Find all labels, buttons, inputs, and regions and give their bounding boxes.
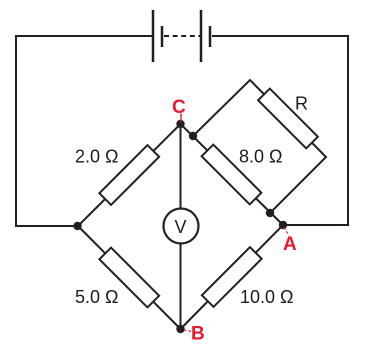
- battery cell 2 long plate: [200, 10, 203, 62]
- wire top-right rail: [212, 35, 348, 37]
- wire voltmeter vertical: [180, 124, 182, 329]
- resistor 10.0 ohm body: [202, 247, 262, 307]
- wire C to left node (2.0 ohm branch): [78, 124, 181, 226]
- wire left rail: [16, 35, 78, 226]
- node B leader line: [184, 330, 192, 332]
- battery cell 1 long plate: [152, 10, 155, 62]
- resistor R body: [258, 89, 318, 149]
- node A leader line: [284, 228, 289, 236]
- wire dashed (more cells): [164, 35, 200, 37]
- svg-text:A: A: [283, 234, 297, 255]
- svg-text:8.0 Ω: 8.0 Ω: [239, 147, 282, 167]
- wire C to A (8.0 ohm branch): [181, 124, 284, 225]
- wire R branch (parallel loop): [193, 80, 326, 213]
- node left junction dot: [73, 222, 81, 230]
- svg-text:V: V: [174, 217, 186, 237]
- resistor 8.0 ohm body: [202, 145, 262, 205]
- wire B to A (10.0 ohm branch): [181, 225, 284, 329]
- svg-text:5.0 Ω: 5.0 Ω: [75, 287, 118, 307]
- resistor 5.0 ohm body: [99, 248, 159, 308]
- resistor 2.0 ohm body: [99, 145, 159, 205]
- junction dot on C-A wire: [189, 132, 197, 140]
- battery cell 2 short plate: [209, 26, 212, 47]
- voltmeter U1: [164, 209, 199, 244]
- battery cell 1 short plate: [161, 26, 164, 47]
- svg-text:C: C: [172, 97, 186, 118]
- svg-text:B: B: [191, 324, 205, 345]
- wire top-left rail: [16, 35, 152, 37]
- wire right rail: [283, 35, 348, 225]
- junction dot R branch rejoin: [266, 209, 274, 217]
- svg-text:R: R: [295, 94, 308, 114]
- node A junction dot: [279, 221, 287, 229]
- svg-text:10.0 Ω: 10.0 Ω: [240, 287, 294, 307]
- svg-text:2.0 Ω: 2.0 Ω: [75, 147, 118, 167]
- node B junction dot: [176, 325, 184, 333]
- wire left node to B (5.0 ohm branch): [78, 226, 181, 329]
- node C junction dot: [176, 120, 184, 128]
- node C leader line: [180, 114, 182, 123]
